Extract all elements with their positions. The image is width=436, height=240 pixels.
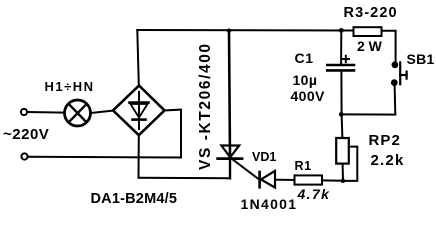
label C1 bbox=[295, 50, 314, 66]
label ~220V bbox=[3, 126, 49, 143]
label R1 bbox=[295, 159, 312, 173]
wire vertical from top bus down to bridge top node bbox=[137, 30, 139, 86]
wire lamp to bridge left node bbox=[91, 111, 113, 113]
wire RP2 bottom lead bbox=[342, 164, 344, 182]
lamp H1..HN circle with X bbox=[65, 100, 91, 126]
label 2.2k bbox=[371, 152, 405, 169]
wire C1 branch: top bus down to top plate bbox=[340, 30, 342, 64]
node junction RP2 bottom with R1 wire bbox=[341, 179, 345, 183]
diode VD1 cathode bar bbox=[258, 172, 261, 187]
capacitor C1 polarity plus bbox=[343, 56, 349, 62]
wire R3 right to SB1 corner bbox=[382, 31, 396, 62]
wire bottom terminal to bridge right node (up the right loop) bbox=[28, 110, 181, 158]
wire gate diagonal to VD1 bbox=[232, 159, 259, 179]
diode VD1 triangle pointing left bbox=[261, 171, 275, 188]
node junction at C1/RP2 branch bbox=[339, 112, 344, 117]
wire thyristor anode vertical bbox=[229, 31, 230, 158]
wire terminal to lamp bbox=[27, 111, 64, 114]
wire bridge bottom node down (crosses AC wire) bbox=[138, 135, 140, 178]
switch SB1 bottom contact bbox=[392, 80, 397, 85]
label DA1-B2M4/5 bbox=[91, 191, 178, 207]
label 4.7k bbox=[298, 186, 331, 202]
node junction of C1 branch on top bus bbox=[339, 28, 344, 33]
label 400V bbox=[291, 88, 325, 104]
wire cathode down to bottom bus bbox=[229, 159, 231, 179]
terminal bottom input bbox=[21, 153, 27, 159]
resistor R3 body bbox=[354, 27, 382, 36]
thyristor VS triangle bbox=[221, 146, 239, 158]
thyristor cathode bar bbox=[218, 157, 242, 160]
wire R1 to RP2 bottom junction bbox=[322, 179, 343, 181]
wire SB1 bottom down and left to C1 branch bbox=[341, 85, 395, 115]
potentiometer RP2 body bbox=[336, 138, 349, 164]
label SB1 bbox=[407, 51, 435, 67]
label 10u bbox=[293, 72, 318, 88]
diode inside bridge bbox=[130, 92, 149, 129]
wire VD1 to R1 bbox=[276, 179, 295, 181]
capacitor C1 plates bbox=[327, 65, 354, 70]
terminal top input bbox=[21, 109, 27, 115]
label 2W bbox=[357, 38, 382, 54]
wire bottom bus to thyristor cathode bbox=[139, 177, 231, 180]
label VS -KT206/400 vertical bbox=[197, 42, 215, 170]
rectifier bridge DA1 diamond bbox=[113, 86, 165, 136]
wire C1 bottom plate down to SB1 return junction and on to RP2 bbox=[341, 70, 342, 138]
RP2 wiper arm loop to bottom lead bbox=[343, 147, 357, 181]
label H1..HN bbox=[45, 79, 95, 94]
wire top bus from bridge top corner to R3 bbox=[137, 29, 353, 32]
label 1N4001 bbox=[241, 196, 298, 212]
switch SB1 actuator bar and stem bbox=[400, 62, 406, 84]
label R3-220 bbox=[344, 5, 398, 21]
resistor R1 body bbox=[295, 175, 323, 184]
label VD1 bbox=[252, 150, 276, 164]
node junction of thyristor anode on top bus bbox=[227, 29, 231, 33]
switch SB1 top contact bbox=[392, 62, 397, 67]
label RP2 bbox=[369, 132, 401, 149]
